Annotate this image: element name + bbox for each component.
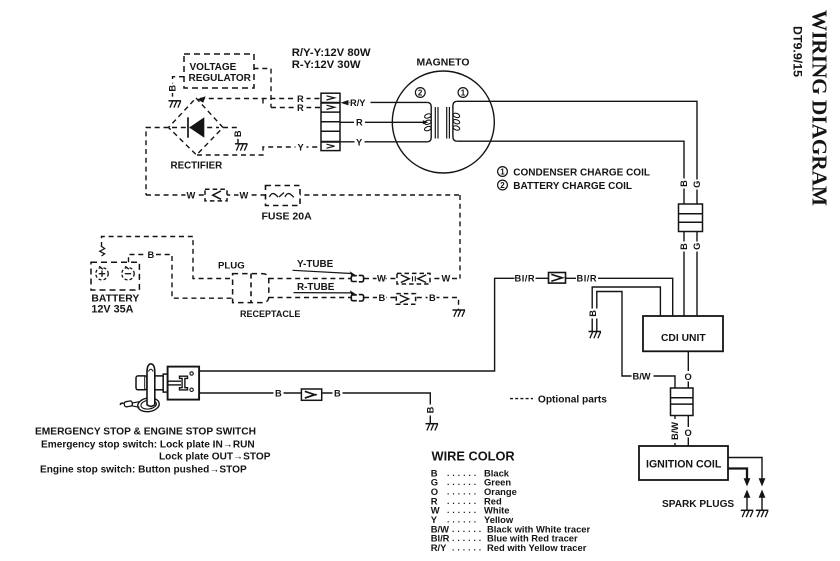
svg-text:R/Y-Y:12V 80W: R/Y-Y:12V 80W (292, 47, 371, 59)
svg-text:B: B (334, 389, 341, 399)
svg-text:Optional parts: Optional parts (538, 394, 607, 405)
svg-text:CDI UNIT: CDI UNIT (661, 333, 706, 344)
svg-text:W: W (240, 191, 249, 201)
svg-text:B: B (148, 250, 155, 260)
svg-text:R/Y: R/Y (431, 542, 447, 553)
svg-text:O: O (685, 372, 692, 382)
svg-text:B: B (233, 130, 243, 137)
svg-text:R-TUBE: R-TUBE (297, 282, 335, 293)
svg-text:R: R (297, 103, 304, 113)
svg-text:1: 1 (500, 168, 505, 177)
svg-text:BATTERY CHARGE COIL: BATTERY CHARGE COIL (513, 181, 632, 192)
svg-text:MAGNETO: MAGNETO (417, 58, 470, 69)
svg-text:W: W (442, 274, 451, 284)
svg-text:RECTIFIER: RECTIFIER (171, 160, 223, 171)
svg-text:B: B (426, 406, 436, 413)
svg-text:CONDENSER CHARGE COIL: CONDENSER CHARGE COIL (513, 168, 650, 179)
svg-text:WIRING DIAGRAM: WIRING DIAGRAM (808, 10, 832, 206)
svg-text:Lock plate OUT→STOP: Lock plate OUT→STOP (159, 451, 271, 462)
svg-text:B: B (429, 293, 436, 303)
svg-text:WIRE COLOR: WIRE COLOR (432, 449, 515, 464)
svg-text:Y: Y (356, 137, 363, 147)
svg-text:B: B (168, 85, 178, 92)
svg-text:B: B (588, 310, 598, 317)
svg-text:Y: Y (298, 143, 305, 153)
svg-text:FUSE 20A: FUSE 20A (262, 210, 313, 222)
svg-text:1: 1 (461, 89, 466, 98)
svg-text:SPARK PLUGS: SPARK PLUGS (662, 499, 734, 510)
svg-text:Emergency stop switch: Lock pl: Emergency stop switch: Lock plate IN→RUN (41, 440, 255, 451)
svg-text:B/W: B/W (670, 422, 680, 440)
svg-text:O: O (685, 428, 692, 438)
svg-text:REGULATOR: REGULATOR (189, 73, 252, 84)
svg-text:12V 35A: 12V 35A (91, 304, 133, 316)
svg-text:2: 2 (500, 181, 505, 190)
svg-text:EMERGENCY STOP & ENGINE STOP S: EMERGENCY STOP & ENGINE STOP SWITCH (35, 427, 256, 438)
svg-text:G: G (692, 243, 702, 250)
svg-text:G: G (692, 181, 702, 188)
svg-text:IGNITION COIL: IGNITION COIL (646, 459, 722, 471)
svg-text:W: W (187, 191, 196, 201)
svg-text:B: B (379, 293, 386, 303)
svg-text:B/W: B/W (633, 372, 651, 382)
svg-text:B: B (275, 389, 282, 399)
svg-text:Y-TUBE: Y-TUBE (297, 259, 334, 270)
svg-text:Bl/R: Bl/R (515, 274, 536, 284)
svg-text:Red with Yellow tracer: Red with Yellow tracer (487, 542, 587, 553)
svg-text:R: R (356, 118, 363, 128)
svg-text:2: 2 (418, 89, 423, 98)
svg-text:B: B (679, 243, 689, 250)
svg-text:PLUG: PLUG (218, 261, 245, 272)
svg-text:......: ...... (452, 543, 484, 553)
svg-text:W: W (377, 274, 386, 284)
svg-text:R-Y:12V 30W: R-Y:12V 30W (292, 59, 361, 71)
svg-text:B: B (679, 180, 689, 187)
svg-text:VOLTAGE: VOLTAGE (190, 62, 237, 73)
svg-text:RECEPTACLE: RECEPTACLE (240, 309, 300, 319)
svg-text:Engine stop switch: Button pus: Engine stop switch: Button pushed→STOP (40, 465, 247, 476)
svg-text:R/Y: R/Y (350, 98, 366, 108)
svg-text:DT9.9/15: DT9.9/15 (791, 26, 805, 77)
svg-text:Bl/R: Bl/R (577, 274, 598, 284)
